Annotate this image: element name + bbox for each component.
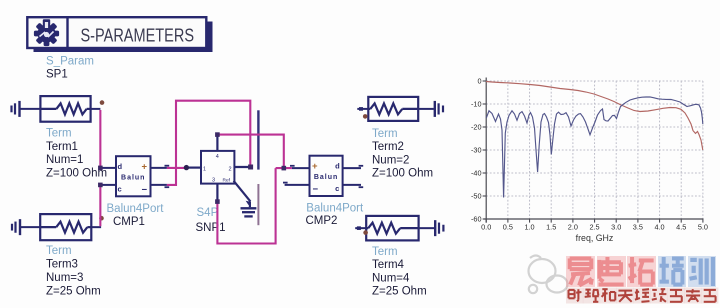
svg-text:−: −	[142, 184, 148, 195]
svg-text:Balun: Balun	[121, 174, 145, 181]
svg-text:-40: -40	[471, 169, 482, 178]
svg-text:c: c	[335, 184, 339, 193]
svg-text:Balun4Port: Balun4Port	[306, 202, 364, 214]
svg-text:1: 1	[203, 167, 206, 173]
svg-text:-60: -60	[471, 215, 482, 224]
svg-text:S_Param: S_Param	[46, 56, 94, 68]
svg-text:Term1: Term1	[46, 141, 78, 153]
svg-text:Term: Term	[46, 127, 72, 139]
svg-text:S-PARAMETERS: S-PARAMETERS	[81, 25, 195, 45]
svg-text:+: +	[142, 162, 148, 173]
svg-text:Term4: Term4	[372, 259, 405, 271]
svg-text:Z=100 Ohm: Z=100 Ohm	[372, 168, 433, 180]
svg-text:3.0: 3.0	[611, 222, 621, 231]
svg-text:2.5: 2.5	[589, 222, 599, 231]
svg-text:2: 2	[229, 167, 232, 173]
svg-text:Term3: Term3	[46, 259, 78, 271]
svg-text:-30: -30	[471, 146, 482, 155]
svg-text:SP1: SP1	[46, 69, 68, 81]
svg-text:Num=4: Num=4	[372, 272, 410, 284]
svg-text:1.5: 1.5	[546, 222, 556, 231]
svg-text:4.5: 4.5	[676, 222, 686, 231]
svg-text:3.5: 3.5	[633, 222, 643, 231]
svg-text:Z=25 Ohm: Z=25 Ohm	[372, 286, 427, 298]
svg-text:d: d	[118, 162, 123, 171]
svg-text:-20: -20	[471, 123, 482, 132]
svg-text:5.0: 5.0	[698, 222, 708, 231]
svg-text:3: 3	[212, 177, 215, 183]
svg-text:Z=25 Ohm: Z=25 Ohm	[46, 285, 101, 297]
svg-text:S4P: S4P	[197, 207, 219, 219]
svg-text:0.0: 0.0	[481, 222, 491, 231]
svg-text:−: −	[313, 184, 319, 195]
svg-text:Ref: Ref	[223, 177, 231, 183]
svg-text:Num=2: Num=2	[372, 154, 409, 166]
svg-text:c: c	[118, 184, 122, 193]
svg-text:+: +	[312, 161, 318, 172]
svg-text:freq, GHz: freq, GHz	[576, 233, 614, 243]
svg-text:0: 0	[477, 77, 481, 86]
svg-text:Z=100 Ohm: Z=100 Ohm	[46, 168, 107, 180]
svg-text:4.0: 4.0	[654, 222, 664, 231]
svg-text:Balun4Port: Balun4Port	[107, 203, 165, 215]
svg-text:Num=3: Num=3	[46, 272, 83, 284]
svg-text:SNP1: SNP1	[196, 222, 226, 234]
svg-text:-50: -50	[471, 192, 482, 201]
svg-text:Term: Term	[372, 128, 398, 140]
svg-text:0.5: 0.5	[503, 222, 513, 231]
svg-text:Term2: Term2	[372, 141, 404, 153]
svg-text:1.0: 1.0	[524, 222, 534, 231]
svg-text:4: 4	[216, 154, 219, 160]
svg-text:Balun: Balun	[314, 174, 338, 181]
svg-text:CMP1: CMP1	[113, 216, 145, 228]
svg-text:Term: Term	[372, 246, 398, 258]
svg-text:2.0: 2.0	[568, 222, 578, 231]
svg-text:d: d	[335, 162, 340, 171]
svg-text:CMP2: CMP2	[306, 215, 338, 227]
svg-text:-10: -10	[471, 100, 482, 109]
svg-text:Num=1: Num=1	[46, 154, 83, 166]
svg-text:Term: Term	[46, 245, 72, 257]
